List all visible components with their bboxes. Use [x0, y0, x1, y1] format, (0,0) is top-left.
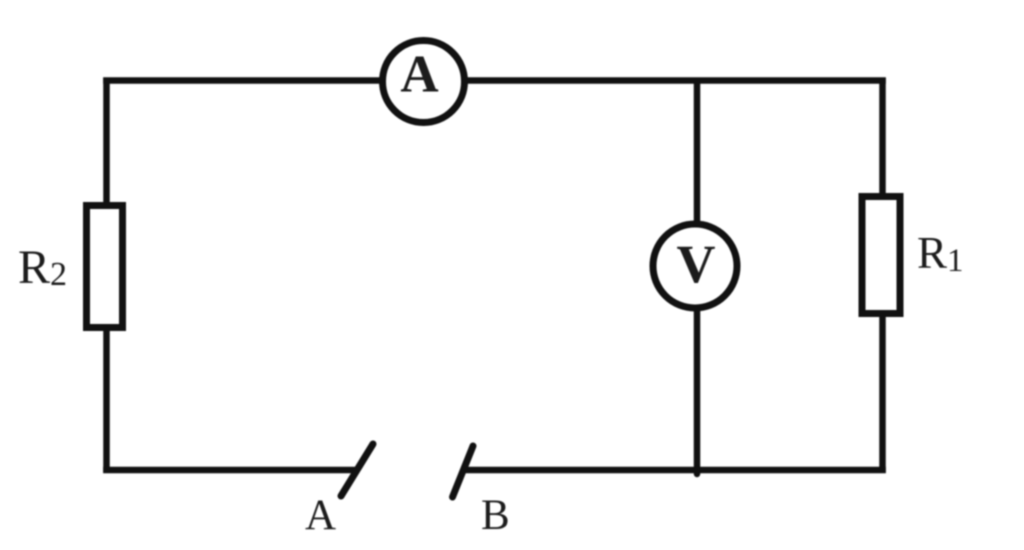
- wire bottom-left segment: [103, 467, 358, 474]
- svg-text:R2: R2: [18, 241, 67, 294]
- wire right branch upper: [879, 78, 886, 195]
- svg-text:A: A: [400, 46, 438, 104]
- voltmeter V: [653, 224, 737, 308]
- svg-text:A: A: [305, 492, 336, 539]
- svg-text:B: B: [481, 492, 510, 539]
- wire middle branch upper: [694, 78, 701, 225]
- switch contact tick A: [341, 444, 373, 496]
- wire middle branch lower: [694, 309, 701, 474]
- wire left branch upper: [103, 78, 110, 204]
- wire bottom-right segment: [464, 467, 886, 474]
- resistor R2: [87, 206, 123, 328]
- wire top-right segment: [466, 77, 886, 84]
- svg-text:V: V: [677, 234, 716, 294]
- wire right branch lower: [879, 316, 886, 473]
- svg-text:R1: R1: [917, 228, 964, 279]
- ammeter A: [383, 41, 465, 123]
- wire left branch lower: [103, 330, 110, 473]
- wire top-left segment: [103, 77, 382, 84]
- switch contact tick B: [453, 446, 474, 497]
- resistor R1: [862, 197, 900, 314]
